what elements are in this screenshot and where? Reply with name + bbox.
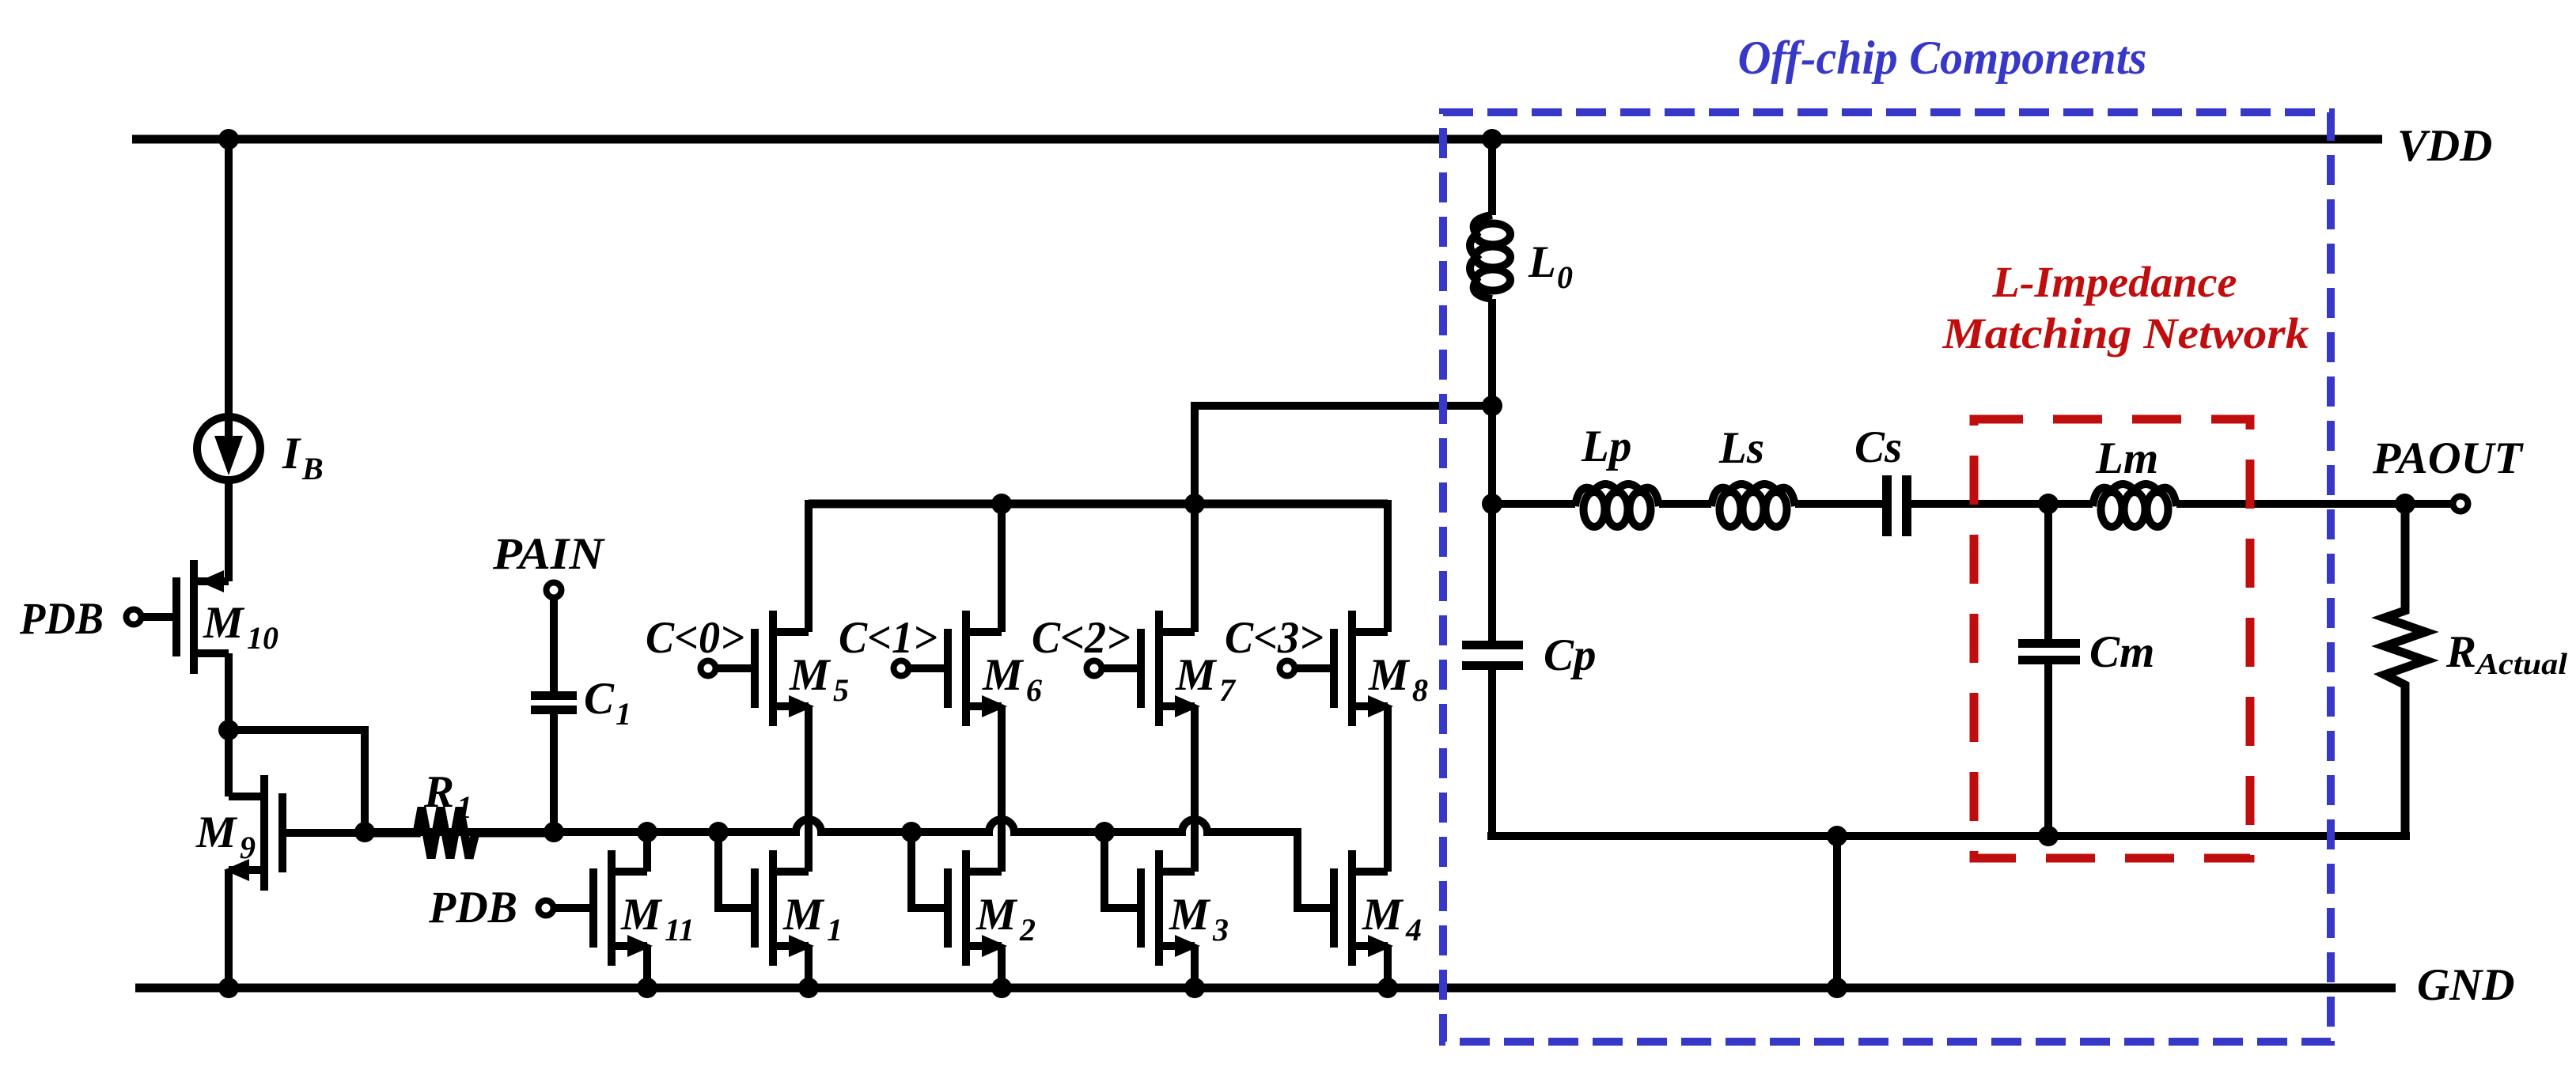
wire M1 gate riser	[718, 832, 755, 908]
svg-text:8: 8	[1412, 672, 1428, 708]
wire gate bus	[365, 819, 1337, 908]
wire M11 source to GND	[643, 946, 651, 988]
junction M11 GND	[637, 978, 657, 998]
node VDD label	[2397, 121, 2492, 171]
label R1	[423, 767, 472, 825]
junction return GND	[1827, 978, 1847, 998]
label C1	[584, 674, 631, 732]
wire M7 drain to drain bus	[1191, 500, 1199, 632]
svg-text:5: 5	[833, 672, 849, 708]
junction M1 GND	[798, 978, 819, 998]
junction VDD L0	[1482, 129, 1502, 149]
wire M1 source to GND	[805, 946, 813, 988]
label M8	[1368, 650, 1428, 708]
capacitor Cp	[1462, 641, 1523, 836]
label PDB left	[19, 594, 104, 644]
label C3	[1225, 613, 1324, 663]
svg-text:4: 4	[1405, 912, 1422, 948]
junction VDD left	[218, 129, 239, 149]
label PAIN	[492, 529, 605, 579]
wire Cs to Lm	[1911, 500, 2093, 508]
label IB	[282, 429, 324, 486]
svg-text:VDD: VDD	[2397, 121, 2492, 171]
transistor M5	[755, 611, 814, 726]
capacitor Cm	[2018, 639, 2080, 836]
junction Cm node	[2038, 494, 2059, 514]
wire M2 source to GND	[998, 946, 1006, 988]
label M1	[782, 890, 843, 948]
svg-text:6: 6	[1026, 672, 1042, 708]
transistor M3	[1141, 850, 1200, 966]
junction M3 GND	[1184, 978, 1205, 998]
transistor M11	[593, 850, 653, 966]
svg-text:PDB: PDB	[428, 883, 517, 933]
wire C2 to M7 gate	[1101, 664, 1137, 672]
label Cp	[1544, 630, 1597, 680]
inductor Lm	[2093, 484, 2176, 527]
label Lp	[1581, 422, 1631, 471]
wire Lm to PAOUT	[2176, 500, 2451, 508]
svg-text:Lp: Lp	[1581, 422, 1631, 471]
wire GND rail	[135, 984, 2396, 993]
wire Lp to Ls	[1659, 500, 1711, 508]
transistor M4	[1334, 850, 1393, 966]
wire M5 drain to drain bus	[805, 500, 813, 632]
label PAOUT	[2372, 433, 2524, 483]
label L0	[1528, 237, 1573, 295]
wire diode link to gate	[229, 730, 365, 832]
label M6	[982, 650, 1042, 708]
svg-text:Ls: Ls	[1718, 423, 1764, 473]
resistor RActual	[2385, 504, 2426, 836]
junction drain bus M6	[991, 494, 1012, 514]
label M11	[620, 890, 695, 948]
svg-text:1: 1	[827, 912, 843, 948]
svg-text:C<3>: C<3>	[1225, 613, 1324, 663]
wire PDB2 to M11 gate	[554, 904, 593, 912]
svg-text:C<1>: C<1>	[839, 613, 938, 663]
transistor M10	[176, 560, 229, 674]
junction bus R1	[354, 822, 375, 842]
terminal PDB2	[539, 901, 554, 916]
wire PAIN to C1	[550, 596, 558, 691]
svg-text:Actual: Actual	[2475, 648, 2568, 681]
terminal C3	[1280, 661, 1295, 676]
svg-text:Cm: Cm	[2089, 627, 2154, 677]
terminal C1	[894, 661, 909, 676]
wire M3 gate riser	[1104, 832, 1141, 908]
wire M2 gate riser	[911, 832, 948, 908]
svg-text:C<2>: C<2>	[1032, 613, 1131, 663]
svg-text:M: M	[620, 890, 663, 940]
transistor M8	[1334, 611, 1393, 726]
label off-chip components	[1738, 32, 2147, 84]
terminal PDB left	[127, 610, 142, 625]
label Cs	[1854, 422, 1902, 472]
resistor R1	[365, 808, 554, 858]
label M9	[195, 808, 256, 865]
label M5	[789, 650, 849, 708]
junction return-GND riser	[1827, 826, 1847, 846]
svg-text:9: 9	[240, 830, 256, 865]
svg-text:M: M	[975, 890, 1018, 940]
svg-text:L-Impedance: L-Impedance	[1991, 258, 2237, 306]
wire M8 drain to drain bus	[1384, 500, 1392, 632]
transistor M2	[948, 850, 1007, 966]
inductor Ls	[1711, 484, 1795, 527]
wire return to GND	[1833, 836, 1841, 988]
label Cm	[2089, 627, 2154, 677]
wire M6 drain to drain bus	[998, 500, 1006, 632]
svg-text:10: 10	[247, 620, 278, 656]
svg-text:GND: GND	[2417, 960, 2515, 1010]
label C0	[646, 613, 744, 663]
svg-text:0: 0	[1557, 259, 1573, 295]
transistor M9	[224, 775, 365, 891]
svg-text:I: I	[282, 429, 301, 479]
junction M9 GND	[218, 978, 239, 998]
svg-text:1: 1	[616, 696, 631, 732]
label Lm	[2095, 433, 2158, 483]
label RActual	[2445, 627, 2567, 681]
transistor M6	[948, 611, 1007, 726]
svg-text:M: M	[1169, 890, 1211, 940]
capacitor C1	[531, 691, 577, 832]
svg-text:11: 11	[665, 912, 695, 948]
wire VDD rail	[132, 135, 2382, 144]
svg-text:M: M	[1368, 650, 1411, 700]
svg-text:3: 3	[1212, 912, 1229, 948]
wire drain bus riser to L0 node	[1195, 406, 1492, 504]
terminal PAOUT	[2453, 497, 2468, 512]
inductor Lp	[1575, 484, 1659, 527]
inductor L0	[1470, 215, 1510, 299]
svg-text:PAIN: PAIN	[492, 529, 605, 579]
svg-text:M: M	[1362, 890, 1404, 940]
svg-text:L: L	[1528, 237, 1556, 287]
terminal PAIN	[547, 583, 562, 598]
wire M11 drain to bus	[643, 832, 651, 872]
junction M2 gate bus	[901, 822, 922, 842]
wire M9 source to GND	[225, 870, 233, 988]
wire M10 source down	[225, 653, 233, 730]
svg-text:Matching Network: Matching Network	[1941, 309, 2309, 358]
svg-text:2: 2	[1019, 912, 1036, 948]
wire C0 to M5 gate	[715, 664, 751, 672]
current source IB	[197, 417, 260, 480]
svg-text:PAOUT: PAOUT	[2372, 433, 2524, 483]
svg-text:1: 1	[456, 789, 472, 825]
svg-text:M: M	[789, 650, 832, 700]
svg-text:M: M	[1175, 650, 1218, 700]
label Ls	[1718, 423, 1764, 473]
wire return line	[1487, 832, 2410, 840]
junction M10-M9 node	[218, 720, 239, 740]
capacitor Cs	[1882, 475, 1911, 536]
wire C3 to M8 gate	[1294, 664, 1330, 672]
junction Cm return	[2038, 826, 2059, 846]
wire Cm top	[2044, 504, 2052, 639]
svg-text:7: 7	[1219, 672, 1237, 708]
label L-impedance line2	[1941, 309, 2309, 358]
wire L0 to Cp	[1488, 299, 1496, 641]
junction L0 bottom	[1482, 395, 1502, 416]
junction M4 GND	[1377, 978, 1398, 998]
label M2	[975, 890, 1036, 948]
label M7	[1175, 650, 1237, 708]
junction RActual node	[2395, 494, 2415, 514]
svg-text:Cp: Cp	[1544, 630, 1597, 680]
label M3	[1169, 890, 1229, 948]
wire VDD to L0	[1488, 139, 1496, 215]
svg-text:M: M	[195, 808, 238, 857]
wire Ls to Cs	[1795, 500, 1882, 508]
label L-impedance line1	[1991, 258, 2237, 306]
svg-text:B: B	[301, 451, 324, 486]
svg-text:Off-chip Components: Off-chip Components	[1738, 32, 2147, 84]
node GND label	[2417, 960, 2515, 1010]
wire M4 source to GND	[1384, 946, 1392, 988]
svg-text:PDB: PDB	[19, 594, 104, 644]
transistor M7	[1141, 611, 1200, 726]
wire PDB to M10 gate	[142, 613, 176, 621]
junction M3 gate bus	[1094, 822, 1115, 842]
terminal C0	[701, 661, 716, 676]
svg-text:Lm: Lm	[2095, 433, 2158, 483]
junction M11 bus	[637, 822, 657, 842]
svg-text:R: R	[2445, 627, 2476, 677]
terminal C2	[1087, 661, 1102, 676]
box L-impedance matching network (red dashed)	[1974, 419, 2250, 858]
wire M6 source down	[998, 706, 1006, 872]
wire M3 source to GND	[1191, 946, 1199, 988]
label M4	[1362, 890, 1422, 948]
wire M9 drain up	[225, 730, 233, 796]
svg-text:M: M	[782, 890, 825, 940]
junction M2 GND	[991, 978, 1012, 998]
transistor M1	[755, 850, 814, 966]
wire M7 source down	[1191, 706, 1199, 872]
wire C1 to M6 gate	[908, 664, 944, 672]
svg-text:C: C	[584, 674, 615, 724]
junction C1 bus	[544, 822, 564, 842]
wire M5 source down	[805, 706, 813, 872]
box off-chip components (blue dashed)	[1443, 112, 2331, 1042]
svg-text:R: R	[423, 767, 454, 817]
label M10	[203, 598, 278, 656]
wire drain bus	[809, 500, 1388, 509]
svg-text:Cs: Cs	[1854, 422, 1902, 472]
junction signal node	[1482, 494, 1502, 514]
junction drain bus M7	[1184, 494, 1205, 514]
svg-text:M: M	[982, 650, 1025, 700]
label PDB2	[428, 883, 517, 933]
junction M1 gate bus	[708, 822, 729, 842]
label C1	[839, 613, 938, 663]
svg-text:M: M	[203, 598, 245, 648]
wire M8 source down	[1384, 706, 1392, 872]
wire left vertical from VDD to M10	[225, 139, 233, 581]
label C2	[1032, 613, 1131, 663]
wire signal to Lp	[1492, 500, 1575, 508]
svg-text:C<0>: C<0>	[646, 613, 744, 663]
